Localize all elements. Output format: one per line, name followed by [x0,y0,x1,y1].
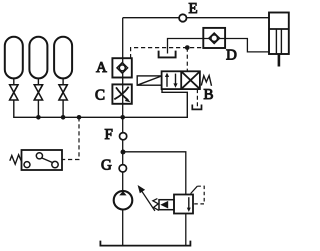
pressure switch [10,150,62,170]
wire top line to cylinder [123,17,269,19]
svg-text:C: C [95,87,105,103]
wire accumulator 3 drop [62,100,64,117]
wire accumulator 2 neck [37,79,39,85]
junction dot bus 2 [36,115,41,120]
pilot line dashed from A to D [131,48,204,59]
wire accumulator 2 drop [37,100,39,117]
svg-text:G: G [101,157,112,173]
svg-text:A: A [96,60,107,76]
wire tank suction to check valve D [168,39,204,54]
junction dot bus 3 [61,115,66,120]
wire accumulator bus [14,89,188,117]
valve B crossed position [182,72,199,88]
junction dot main line bus [120,115,125,120]
junction dot pilot line [185,45,190,50]
valve A pilot check [112,58,131,77]
pilot line dashed to pressure switch [62,117,79,159]
valve B body [162,71,200,89]
tank bottom reservoir [100,241,190,246]
cylinder [269,13,289,67]
wire main vertical line [122,18,124,191]
junction dot relief branch [121,150,126,155]
wire branch to relief valve [123,152,186,195]
svg-text:B: B [204,87,214,103]
valve B arrows position [165,73,178,88]
relief valve [138,185,205,214]
junction dot switch branch [77,115,82,120]
tank symbol valve B drain [192,105,201,110]
wire relief valve to tank [185,214,187,246]
shut-off valve 3 [59,85,67,100]
wire accumulator 3 neck [62,79,64,85]
node G [119,165,126,172]
pump [114,191,133,210]
svg-text:E: E [189,1,198,17]
wire accumulator 1 neck [13,79,15,85]
shut-off valve 2 [34,85,42,100]
wire pump suction [122,210,124,246]
accumulator 3 [54,37,72,79]
check valve D pilot operated [203,28,225,48]
wire check valve D to cylinder [225,39,269,52]
node E [179,14,186,21]
tank symbol upper [159,51,176,58]
shut-off valve 1 [10,85,18,100]
node F [120,133,127,140]
accumulator 1 [5,37,23,79]
svg-text:D: D [226,47,237,63]
valve B spring [201,76,211,86]
drain line dashed from valve B [196,89,198,107]
accumulator 2 [29,37,47,79]
solenoid of valve B [137,76,162,85]
svg-text:F: F [105,127,113,143]
valve C throttle [112,84,131,103]
pilot line dashed to valve B [186,48,188,72]
